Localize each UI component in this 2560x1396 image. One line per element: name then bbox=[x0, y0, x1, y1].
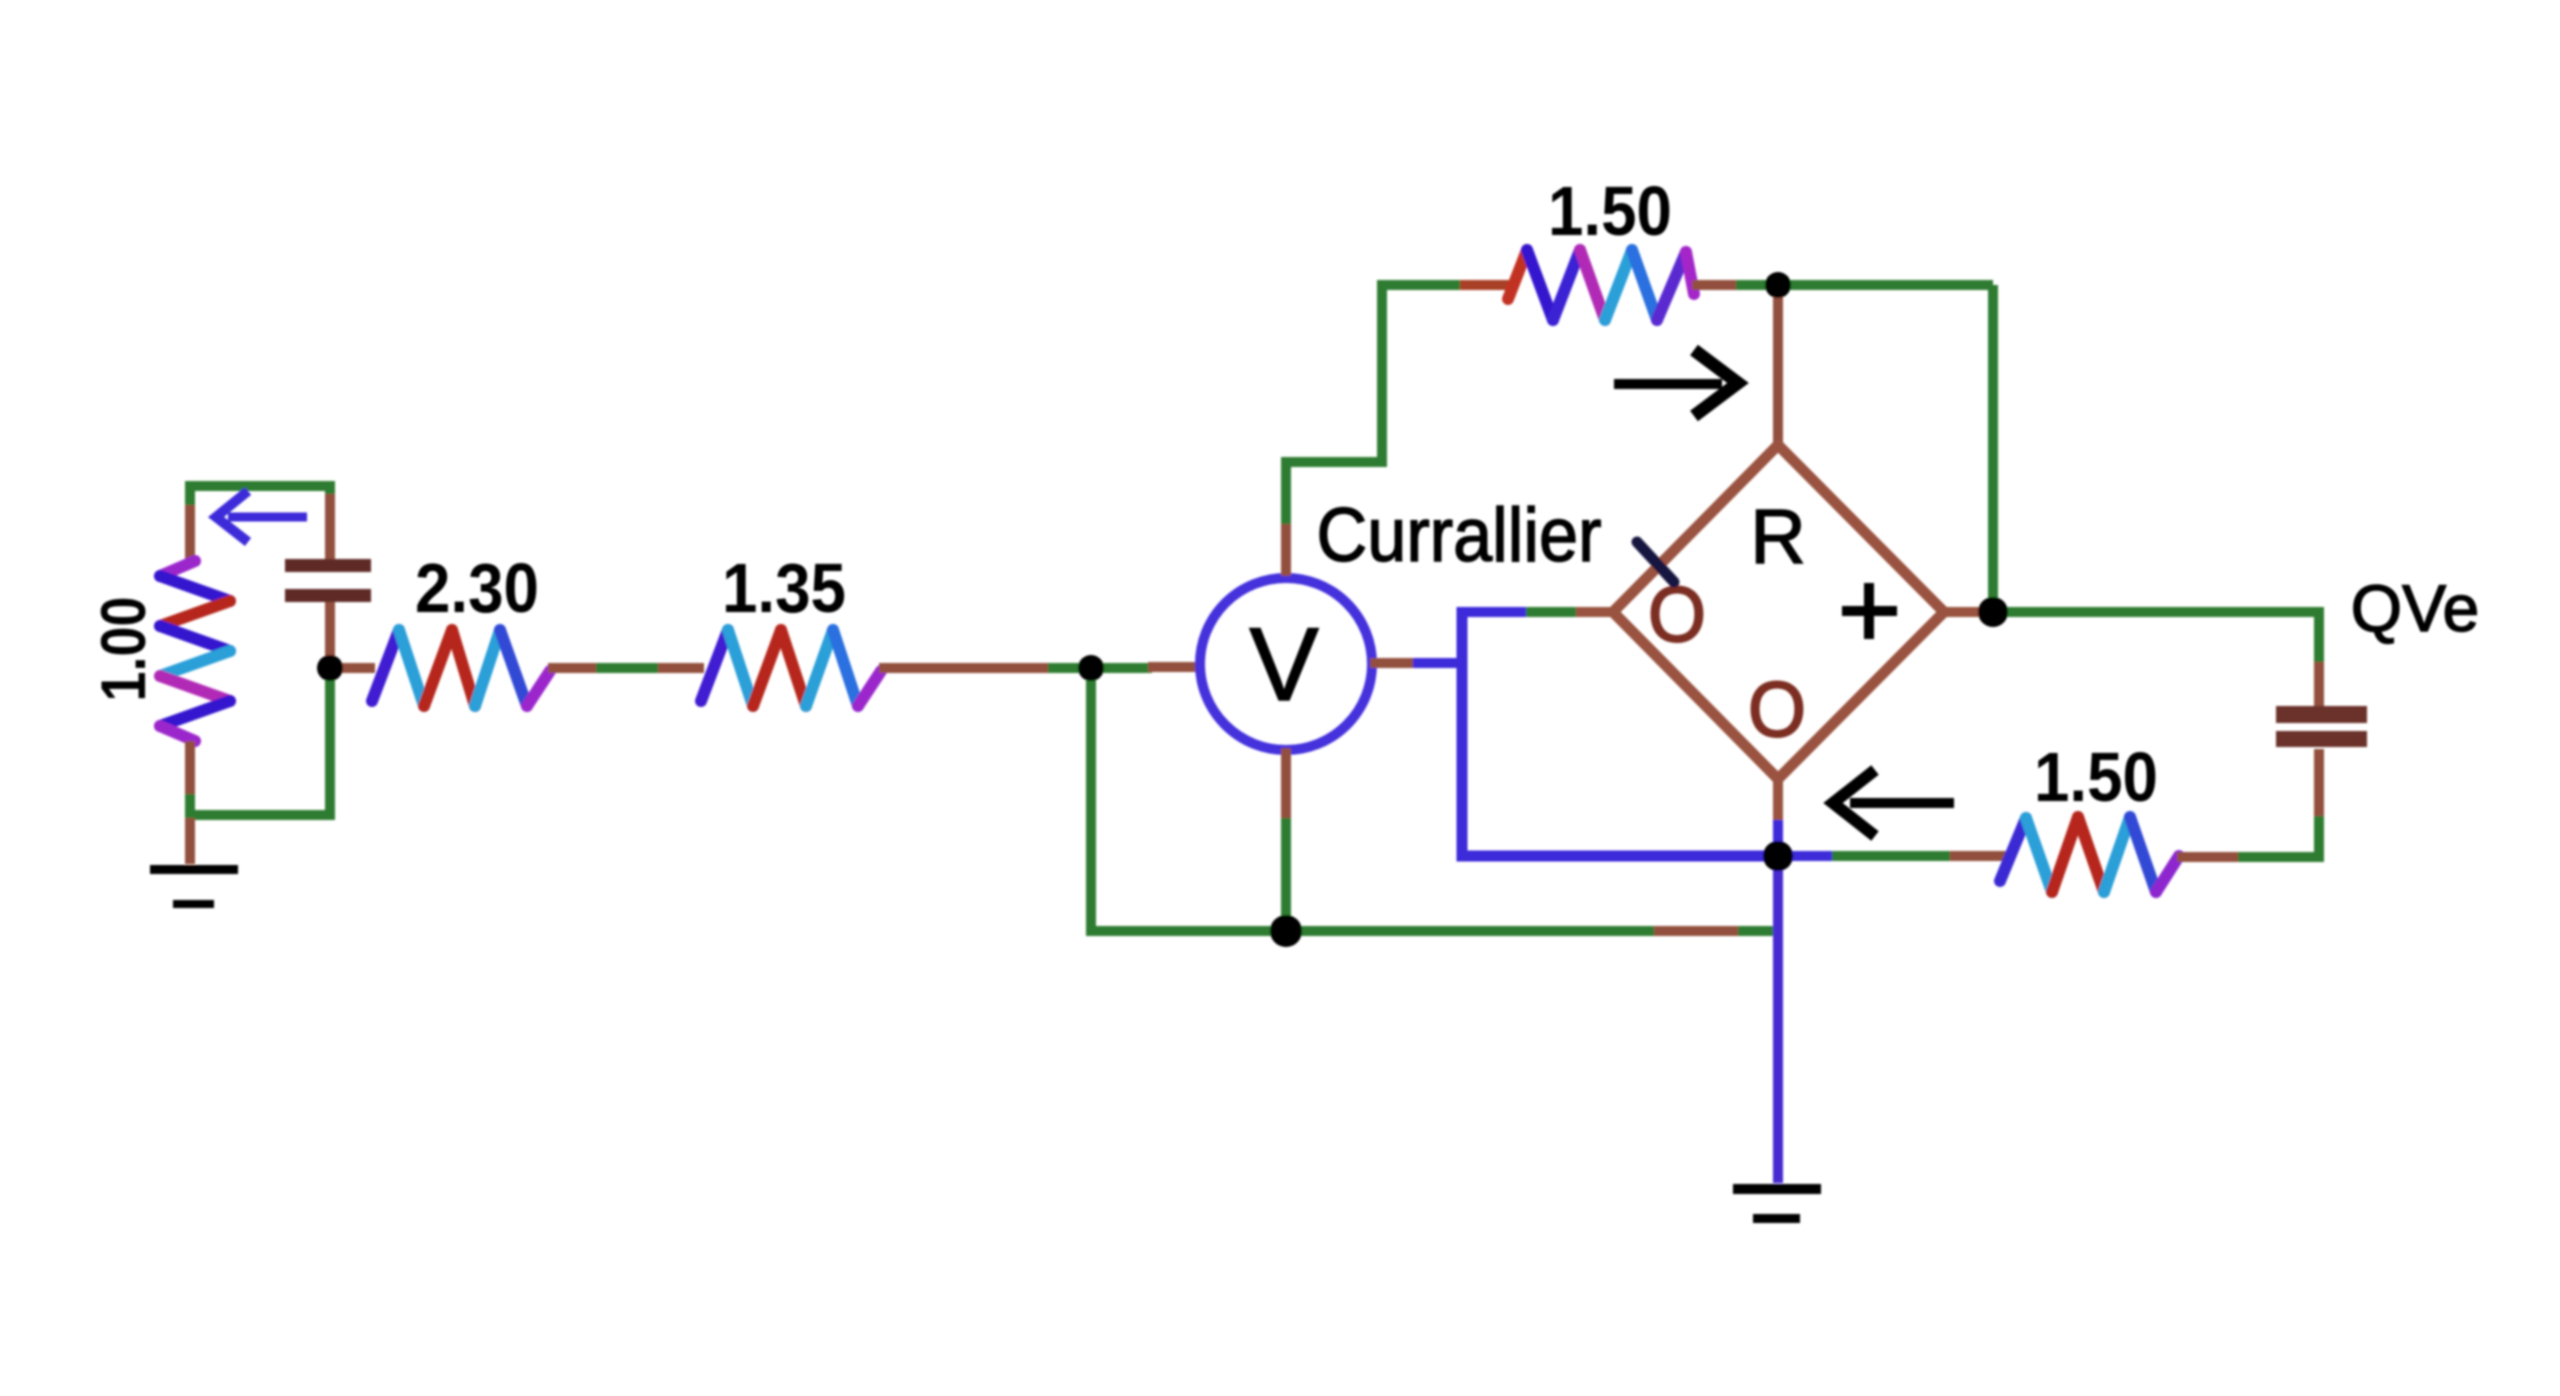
svg-text:R: R bbox=[1750, 494, 1806, 580]
svg-text:V: V bbox=[1249, 607, 1318, 723]
svg-text:O: O bbox=[1748, 665, 1806, 753]
svg-text:2.30: 2.30 bbox=[415, 549, 539, 627]
svg-text:Currallier: Currallier bbox=[1317, 493, 1602, 578]
svg-text:1.50: 1.50 bbox=[1548, 172, 1672, 250]
svg-text:1.00: 1.00 bbox=[89, 597, 159, 702]
svg-text:QVe: QVe bbox=[2351, 571, 2479, 645]
svg-text:1.50: 1.50 bbox=[2034, 738, 2158, 816]
svg-text:1.35: 1.35 bbox=[722, 549, 846, 627]
